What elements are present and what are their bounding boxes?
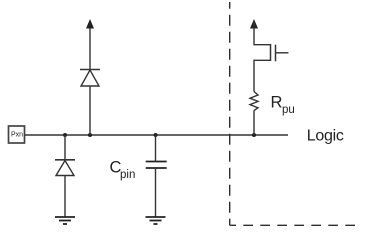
power VCC arrow (pull-up)	[250, 19, 258, 29]
node: junction at Rpu	[252, 133, 256, 137]
power VCC arrow (left)	[86, 19, 94, 29]
node: junction at Cpin	[154, 133, 158, 137]
diode D2 (clamp to GND)	[55, 160, 75, 176]
wire: up to VCC clamp diode	[89, 86, 91, 135]
boundary: dashed chip boundary (vertical)	[229, 2, 231, 225]
svg-text:R: R	[271, 94, 283, 112]
node: junction at clamp diode to GND	[63, 133, 67, 137]
ground (under Cpin)	[146, 217, 166, 224]
node: junction at clamp diode to VCC	[88, 133, 92, 137]
wire: Cpin to ground	[155, 168, 157, 217]
resistor Rpu	[250, 92, 258, 111]
transistor: PMOS pull-up	[271, 44, 289, 61]
svg-text:Logic: Logic	[307, 128, 344, 145]
boundary: dashed chip boundary (bottom horizontal)	[230, 224, 356, 226]
wire: PMOS drain to Rpu	[254, 60, 271, 91]
capacitor Cpin	[146, 162, 167, 169]
wire: main horizontal net from Pxn to Logic	[25, 134, 289, 136]
wire: down to Cpin	[155, 135, 157, 162]
svg-text:pin: pin	[120, 169, 135, 181]
wire: Rpu to net	[253, 111, 255, 136]
wire: down to GND clamp diode	[64, 135, 66, 160]
svg-text:pu: pu	[282, 104, 295, 116]
pin box Pxn	[9, 126, 25, 143]
ground (under D2)	[55, 217, 75, 224]
wire: diode to ground	[64, 176, 66, 218]
wire: diode to VCC arrow	[89, 21, 91, 70]
wire: VCC to PMOS source	[254, 21, 271, 45]
svg-text:Pxn: Pxn	[11, 131, 23, 138]
diode D1 (clamp to VCC)	[80, 70, 100, 87]
